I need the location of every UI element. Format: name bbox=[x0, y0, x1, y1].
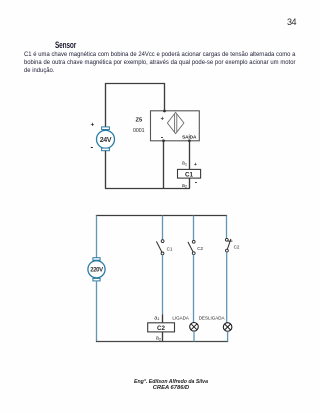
wire C1 a2 down to bottom return bbox=[189, 178, 191, 188]
paragraph bbox=[24, 51, 320, 75]
pin label a1 of C2 coil bbox=[154, 315, 160, 321]
switch C1 (NO contact) bbox=[156, 240, 164, 255]
lamp LIGADA bbox=[190, 323, 199, 332]
svg-text:-: - bbox=[195, 179, 198, 186]
svg-text:a2: a2 bbox=[182, 183, 188, 189]
svg-text:C2: C2 bbox=[234, 244, 240, 249]
wire a1 to C2 coil bbox=[162, 315, 164, 323]
svg-text:24V: 24V bbox=[100, 137, 112, 144]
wire lamp DESLIGADA down to N bbox=[227, 331, 229, 341]
wire from 24V minus down bbox=[105, 151, 107, 189]
pin label + inside Z5 bbox=[161, 117, 165, 123]
voltage source 220V bbox=[88, 258, 105, 281]
contactor coil C2 bbox=[148, 323, 175, 332]
switch C2 (NC contact) bbox=[225, 238, 232, 252]
polarity label + at C1 bbox=[194, 162, 197, 168]
wire branch1 switch to a1 bbox=[162, 255, 164, 315]
pin label a2 of C2 coil bbox=[156, 336, 162, 342]
wire N bottom of bottom circuit bbox=[96, 341, 228, 343]
wire branch3 from L1 to switch C2 NC bbox=[226, 216, 228, 239]
pin label - inside Z5 bbox=[161, 133, 164, 142]
svg-text:+: + bbox=[194, 162, 197, 168]
footer signature line 2 bbox=[0, 385, 320, 391]
label C2 at switch branch3 bbox=[234, 244, 240, 249]
wire branch3 switch to lamp DESLIGADA bbox=[226, 252, 228, 323]
svg-text:+: + bbox=[91, 122, 95, 129]
label C1 at switch bbox=[167, 246, 173, 251]
wire from 220V source down to N bbox=[96, 280, 98, 341]
page number 34 bbox=[287, 17, 296, 27]
label 0001 bbox=[133, 128, 145, 134]
svg-text:C2: C2 bbox=[157, 325, 165, 332]
junction dot Z5 bottom right bbox=[188, 139, 191, 142]
heading Sensor bbox=[55, 40, 76, 50]
svg-text:Z5: Z5 bbox=[136, 118, 144, 124]
polarity label - at C1 bbox=[195, 179, 198, 186]
svg-text:SAÍDA: SAÍDA bbox=[182, 133, 197, 140]
wire lamp LIGADA down to N bbox=[193, 331, 195, 341]
pin label a1 of C1 bbox=[182, 161, 188, 167]
footer signature line 1 bbox=[0, 379, 320, 385]
wire branch2 from L1 to switch C2 bbox=[193, 216, 195, 241]
voltage source 24V bbox=[97, 127, 115, 151]
svg-text:a1: a1 bbox=[182, 161, 188, 167]
wire branch2 switch to lamp LIGADA bbox=[193, 255, 195, 323]
label Z5 bbox=[136, 118, 144, 124]
wire from 24V plus up and over to Z5 top bbox=[106, 84, 165, 128]
svg-text:a1: a1 bbox=[154, 315, 160, 321]
label LIGADA bbox=[172, 315, 189, 320]
svg-text:+: + bbox=[161, 117, 165, 123]
polarity label + of 24V bbox=[91, 122, 95, 129]
contactor coil C1 bbox=[178, 169, 201, 178]
svg-text:C1: C1 bbox=[167, 246, 173, 251]
wire SAIDA down to C1 bbox=[189, 141, 191, 170]
wire from L1 down to 220V source bbox=[96, 216, 98, 259]
svg-text:220V: 220V bbox=[90, 267, 103, 273]
label DESLIGADA bbox=[199, 315, 225, 320]
wire L1 top of bottom circuit bbox=[96, 215, 227, 217]
svg-text:C2: C2 bbox=[197, 246, 203, 251]
pin label a2 of C1 bbox=[182, 183, 188, 189]
wire C2 coil down to N bbox=[162, 332, 164, 342]
sensor module Z5 box bbox=[151, 111, 200, 141]
svg-text:DESLIGADA: DESLIGADA bbox=[199, 315, 225, 320]
wire Z5 minus down to bottom return bbox=[163, 141, 165, 189]
junction dot Z5 top bbox=[163, 110, 166, 113]
svg-text:-: - bbox=[91, 143, 94, 152]
svg-text:C1: C1 bbox=[185, 171, 193, 178]
label C2 at switch branch2 bbox=[197, 246, 203, 251]
lamp DESLIGADA bbox=[223, 323, 232, 332]
wire branch1 from L1 to switch C1 bbox=[162, 216, 164, 240]
svg-text:0001: 0001 bbox=[133, 128, 145, 134]
svg-text:a2: a2 bbox=[156, 336, 162, 342]
wire bottom return of top circuit bbox=[105, 188, 190, 190]
polarity label - of 24V bbox=[91, 143, 94, 152]
svg-text:LIGADA: LIGADA bbox=[172, 315, 189, 320]
junction dot Z5 bottom left bbox=[162, 139, 165, 142]
sensor crystal diamond symbol bbox=[167, 112, 184, 133]
switch C2 (NO contact) bbox=[188, 240, 195, 254]
pin label SAIDA bbox=[182, 133, 197, 140]
